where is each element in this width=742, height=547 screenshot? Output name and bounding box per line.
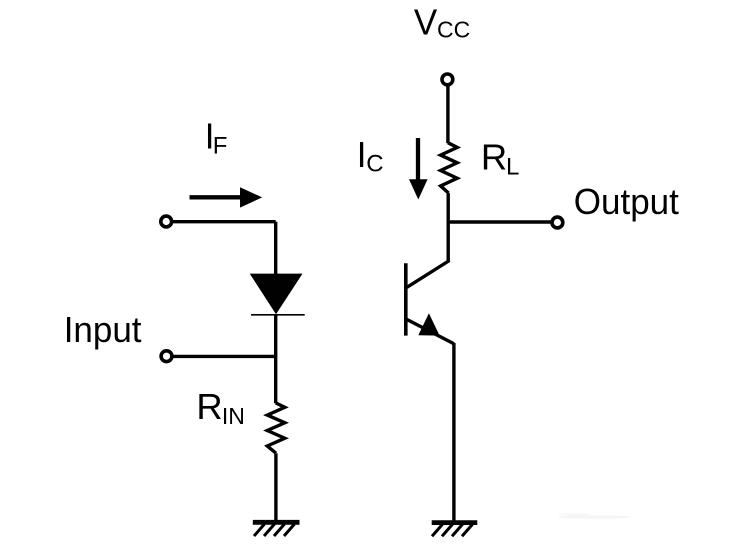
wire: RL down to collector node <box>447 193 450 262</box>
label IF (forward current) <box>205 116 228 160</box>
svg-text:Input: Input <box>64 309 142 350</box>
wire: emitter down to ground <box>452 343 455 523</box>
wire: anode terminal to vertical run <box>173 220 276 223</box>
wire: cathode terminal to vertical run <box>173 355 275 358</box>
LED D1 cathode bar <box>251 314 305 316</box>
wire: vertical down to LED anode <box>274 222 277 276</box>
label VCC <box>414 2 470 43</box>
transistor Q1 emitter lead <box>407 319 454 344</box>
svg-text:V: V <box>414 2 438 43</box>
svg-text:CC: CC <box>437 17 470 43</box>
wire: VCC terminal down to RL <box>446 86 449 144</box>
resistor RIN zigzag <box>267 403 285 453</box>
current arrow IF <box>190 187 263 207</box>
current arrow IC <box>409 138 428 200</box>
wire: LED cathode down through junction to resistor RIN <box>274 314 277 403</box>
svg-text:C: C <box>366 151 383 178</box>
svg-text:R: R <box>481 136 507 177</box>
transistor Q1 emitter arrow <box>418 313 439 335</box>
svg-text:Output: Output <box>574 181 679 222</box>
faint smudge artifact <box>558 513 631 519</box>
wire: collector node to output terminal <box>448 220 552 223</box>
label RIN <box>196 386 245 429</box>
output terminal <box>552 217 563 228</box>
svg-text:I: I <box>357 134 367 175</box>
label RL <box>481 136 519 180</box>
wire: RIN to ground <box>274 453 277 522</box>
svg-text:R: R <box>196 386 222 427</box>
transistor Q1 base bar <box>404 263 408 335</box>
svg-text:F: F <box>213 132 228 159</box>
svg-text:L: L <box>506 153 519 180</box>
transistor Q1 collector lead <box>407 261 450 288</box>
resistor RL zigzag <box>441 143 458 193</box>
LED D1 anode triangle <box>250 274 303 315</box>
ground (input side) <box>253 522 300 536</box>
VCC terminal <box>442 74 453 85</box>
label IC (collector current) <box>357 134 384 177</box>
svg-text:IN: IN <box>222 403 245 429</box>
input terminal (cathode side) <box>161 351 172 362</box>
ground (output side) <box>432 523 478 537</box>
input terminal (anode) <box>161 216 172 227</box>
